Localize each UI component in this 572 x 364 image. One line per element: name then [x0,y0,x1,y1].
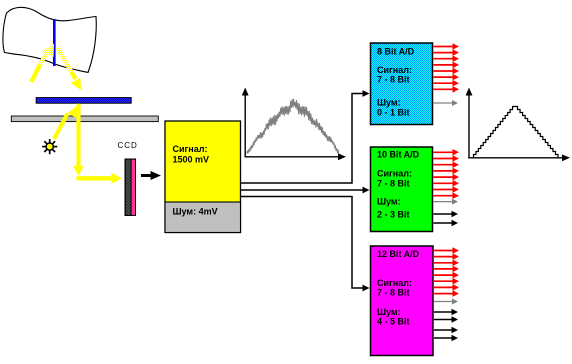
svg-text:CCD: CCD [118,141,138,150]
svg-text:7 - 8 Bit: 7 - 8 Bit [377,288,410,298]
CCD sensor bar [125,159,137,217]
vertical light path to CCD [76,104,80,167]
reflected ray (dithered) [58,48,73,74]
10-bit noise arrow (gray) [434,201,454,203]
12-bit output arrows (red) [434,247,459,297]
svg-text:Шум:: Шум: [377,197,401,207]
analog signal graph [242,88,346,161]
12-bit noise arrows (black) [434,311,453,313]
svg-text:7 - 8 Bit: 7 - 8 Bit [377,178,410,188]
horizontal light path to CCD [77,176,113,180]
10-bit noise arrows (black) [434,213,453,215]
wire to 8-bit A/D [241,94,363,184]
svg-text:Шум:: Шум: [377,98,401,108]
lamp ray arrowhead [67,106,77,118]
reflected ray solid tail [72,72,76,79]
8-bit output arrows (red) [434,43,460,92]
incident light ray (solid) [31,64,40,83]
blue scan line on document [53,19,56,66]
svg-text:7 - 8 Bit: 7 - 8 Bit [377,75,410,85]
svg-text:Шум: 4mV: Шум: 4mV [173,207,218,217]
svg-text:0 - 1 Bit: 0 - 1 Bit [377,108,410,118]
incident ray arrowhead (dithered) [43,44,55,58]
noisy analog curve [247,99,339,154]
svg-text:4 - 5 Bit: 4 - 5 Bit [377,316,410,326]
digitized signal graph [466,88,570,162]
signal box (yellow) [165,121,241,233]
svg-text:1500 mV: 1500 mV [173,155,210,165]
carriage bar (gray) [11,116,158,122]
scanned document (waving sheet) [3,7,96,72]
right arrowhead into CCD [112,173,123,184]
8-bit noise arrow (gray) [434,102,454,104]
down arrowhead [73,166,84,176]
noise section (gray) [165,202,241,233]
svg-text:2 - 3 Bit: 2 - 3 Bit [377,210,410,220]
ray from lamp to lens (solid) [54,114,68,140]
10 Bit A/D box [371,147,433,232]
wire to 10-bit A/D [241,189,363,191]
incident light ray (dithered section) [40,51,48,65]
12-bit noise arrow (gray) [434,301,453,303]
svg-text:Сигнал:: Сигнал: [173,144,208,154]
svg-text:Сигнал:: Сигнал: [377,169,412,179]
thick arrow CCD to signal box [141,171,161,180]
8 Bit A/D box [371,43,433,125]
svg-text:10 Bit A/D: 10 Bit A/D [377,150,420,160]
wire to 12-bit A/D [241,197,363,289]
svg-text:12 Bit A/D: 12 Bit A/D [377,249,420,259]
12 Bit A/D box [371,246,434,356]
svg-text:Сигнал:: Сигнал: [377,65,412,75]
svg-text:Сигнал:: Сигнал: [377,278,412,288]
staircase curve [474,107,559,158]
svg-text:8 Bit A/D: 8 Bit A/D [377,47,415,57]
svg-text:Шум:: Шум: [377,307,401,317]
10-bit output arrows (red) [434,149,460,199]
lamp (sun symbol) [42,139,57,154]
lens bar (blue) [36,98,131,104]
reflected ray arrowhead (solid) [71,78,81,90]
